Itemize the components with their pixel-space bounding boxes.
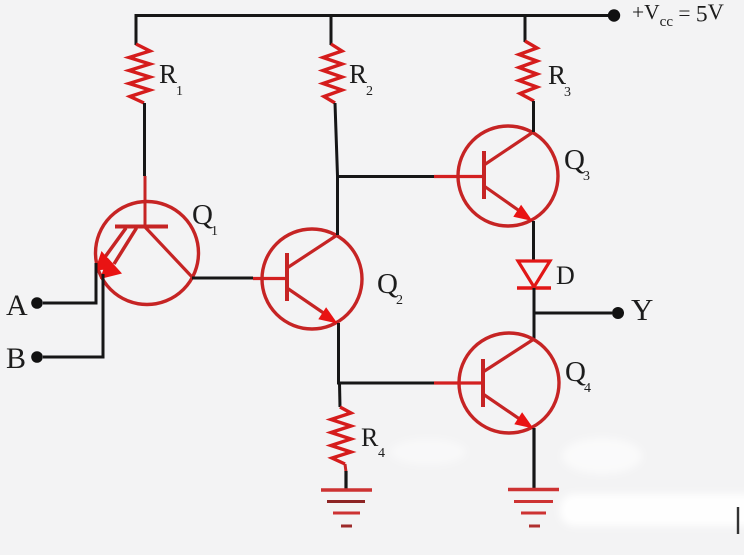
svg-text:B: B [6,342,26,375]
base bar [285,253,289,301]
svg-text:D: D [556,261,575,290]
svg-text:1: 1 [211,224,218,239]
emitter arrowhead [318,307,337,323]
collector line [287,235,338,269]
svg-text:3: 3 [583,169,590,184]
base bar [482,151,486,199]
transistor Q2 [262,229,403,329]
svg-text:A: A [6,289,28,322]
ground under Q4 [508,490,559,527]
svg-text:4: 4 [584,381,591,396]
wire R3 to Q3 collector [532,101,535,132]
wire rail to R1 [135,14,138,45]
output Y terminal [612,292,653,327]
svg-text:2: 2 [366,84,373,99]
wire R1 to Q1 (black part) [143,103,146,176]
white smudge artifact [390,438,744,526]
stray mark bottom right [737,507,739,534]
base bar [481,359,485,407]
wire rail to R2 [330,14,333,45]
emitter line [483,394,521,420]
wire Q3 emitter to diode [532,221,535,262]
svg-text:Q: Q [564,144,585,176]
resistor R1 [129,44,183,103]
svg-text:R: R [159,59,177,89]
wire node to R4 [338,383,342,407]
wire node to Q3 base (black part) [338,175,435,178]
emitter arrowhead [513,205,532,221]
transistor Q3 [458,126,590,226]
emitter line [287,288,325,314]
svg-text:Q: Q [377,268,398,300]
node Y junction / output wire [534,312,612,315]
wire Q1 collector to Q2 base (black part) [192,277,253,280]
collector line [484,132,534,166]
wire [136,14,615,17]
Vcc terminal dot [608,9,620,21]
wire B to Q1 emitter2 [43,274,103,357]
svg-text:R: R [349,59,367,89]
svg-text:2: 2 [396,293,403,308]
emitter 2 line [114,228,137,264]
transistor Q4 [459,333,591,433]
resistor R3 [519,41,571,101]
svg-text:4: 4 [378,446,385,461]
svg-text:Q: Q [192,199,213,231]
svg-text:3: 3 [564,85,571,100]
node Vcc rail [136,0,724,30]
wire Q2 emitter down to node [337,323,340,384]
input B terminal [6,342,43,375]
wire node to Q4 base (black part) [337,382,434,385]
wire A to Q1 emitter1 [43,263,96,303]
wire Q1 collector to Q2 base (red part) [253,277,287,280]
wire R4 to ground (red tail) [345,464,346,472]
svg-text:Q: Q [565,356,586,388]
wire to Q4 base (red part) [434,381,483,384]
emitter 1 arrowhead [95,251,117,271]
wire diode to Q4 collector (through Y node) [533,288,536,340]
wire to Q3 base (red part) [434,175,484,178]
svg-text:1: 1 [176,84,183,99]
wire rail to R3 [524,14,527,42]
emitter line [484,186,521,212]
emitter arrowhead [514,412,533,428]
collector line [145,227,193,278]
wire R1 to Q1 base (red part) [144,176,147,227]
wire R2 down to node and Q2 collector [335,103,338,235]
transistor Q1 [95,199,218,305]
diode D [517,261,575,290]
collector line [483,339,534,372]
resistor R4 [331,407,385,464]
resistor R2 [323,44,373,103]
svg-text:Y: Y [631,292,653,327]
emitter 2 arrowhead [100,258,122,280]
svg-text:R: R [361,423,379,452]
ground under R4 [321,490,372,526]
wire R4 to ground (black) [344,471,347,490]
emitter 1 line [105,228,126,257]
cathode bar [517,286,551,290]
wire Q4 emitter to ground [532,428,535,490]
input A terminal [6,289,43,322]
base bar [115,225,168,229]
